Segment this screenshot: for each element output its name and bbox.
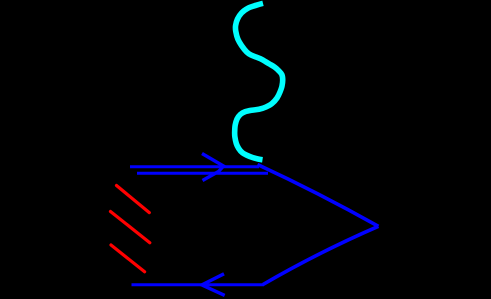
hatch red line 3 (111, 245, 145, 272)
bottom quark line horizontal (132, 283, 265, 286)
wire returning quark lower diagonal (263, 226, 378, 284)
incoming quark line bottom (double line lower) (137, 172, 268, 175)
incoming quark line top (double line upper) (130, 165, 259, 168)
photon wavy line (235, 3, 283, 160)
hatch red line 1 (117, 186, 150, 213)
hatch red line 2 (111, 212, 150, 243)
arrow on incoming double line (202, 154, 224, 181)
wire outgoing quark upper diagonal (258, 165, 379, 227)
arrow on bottom line (pointing left) (202, 274, 225, 296)
